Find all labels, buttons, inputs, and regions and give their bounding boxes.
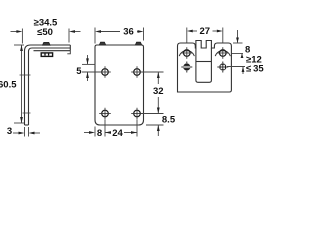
svg-text:5: 5 bbox=[76, 66, 82, 77]
svg-text:≤ 35: ≤ 35 bbox=[246, 63, 264, 74]
svg-text:8.5: 8.5 bbox=[162, 115, 176, 126]
svg-text:36: 36 bbox=[123, 27, 134, 38]
svg-text:3: 3 bbox=[7, 126, 12, 137]
svg-text:32: 32 bbox=[153, 86, 164, 97]
svg-text:≤50: ≤50 bbox=[37, 27, 53, 38]
svg-text:8: 8 bbox=[97, 128, 102, 139]
svg-text:60.5: 60.5 bbox=[0, 80, 17, 91]
svg-text:27: 27 bbox=[200, 26, 211, 37]
svg-text:24: 24 bbox=[112, 128, 123, 139]
